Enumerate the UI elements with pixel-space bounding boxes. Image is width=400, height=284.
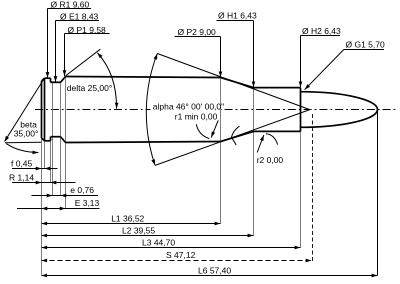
svg-text:Ø P2 9,00: Ø P2 9,00 [178,27,217,37]
svg-text:delta 25,00°: delta 25,00° [67,83,112,93]
svg-text:f 0,45: f 0,45 [11,159,33,169]
svg-text:S 47,12: S 47,12 [166,250,196,260]
svg-text:E 3,13: E 3,13 [75,198,100,208]
svg-text:Ø H1 6,43: Ø H1 6,43 [218,10,257,20]
svg-text:L1 36,52: L1 36,52 [111,213,144,223]
svg-text:L6 57,40: L6 57,40 [198,265,231,275]
svg-text:e 0,76: e 0,76 [70,185,94,195]
svg-text:35,00°: 35,00° [14,129,39,139]
svg-text:alpha 46° 00' 00,0": alpha 46° 00' 00,0" [153,101,224,111]
svg-text:Ø G1 5,70: Ø G1 5,70 [346,39,385,49]
svg-text:r2 0,00: r2 0,00 [257,155,284,165]
svg-text:Ø H2 6,43: Ø H2 6,43 [302,26,341,36]
svg-text:Ø R1 9,60: Ø R1 9,60 [51,0,90,10]
svg-text:r1 min 0,00: r1 min 0,00 [175,112,218,122]
svg-text:R 1,14: R 1,14 [9,173,34,183]
svg-text:L3 44,70: L3 44,70 [142,237,175,247]
svg-text:Ø P1 9,58: Ø P1 9,58 [68,25,107,35]
svg-text:Ø E1 8,43: Ø E1 8,43 [60,12,99,22]
svg-text:L2 39,55: L2 39,55 [122,225,155,235]
